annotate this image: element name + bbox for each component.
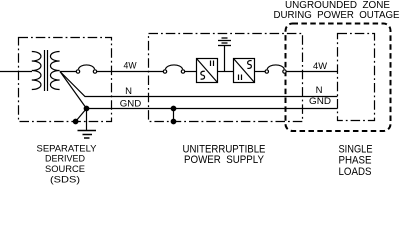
transformer T1 primary winding <box>32 52 41 90</box>
ungrounded zone boundary (thick dashed, rounded) <box>286 24 391 132</box>
battery B1 <box>224 46 226 72</box>
svg-text:GND: GND <box>309 96 331 107</box>
enclosure: SDS box <box>19 38 112 122</box>
caption: SINGLE PHASE LOADS <box>339 144 373 178</box>
ground symbol <box>78 130 97 132</box>
wire: secondary to switch S1 <box>60 71 77 73</box>
wire: switch S2 to rectifier <box>185 71 197 73</box>
caption: UNITERRUPTIBLE POWER SUPPLY <box>183 143 266 166</box>
svg-text:POWER SUPPLY: POWER SUPPLY <box>184 154 264 166</box>
svg-text:4W: 4W <box>313 61 327 72</box>
bond: GND to UPS enclosure <box>173 109 175 122</box>
wire: 4W line SDS to UPS <box>97 71 164 73</box>
svg-text:DERIVED: DERIVED <box>45 153 85 164</box>
disconnect switch S1 <box>76 70 79 73</box>
svg-text:PHASE: PHASE <box>339 155 372 167</box>
wire: neutral N <box>60 72 338 97</box>
wire: ground tap diagonal <box>60 72 87 109</box>
transformer T1 core <box>44 50 46 91</box>
inverter U2 <box>234 59 255 83</box>
enclosure: single-phase-loads box <box>338 34 375 121</box>
wire: inverter to switch S3 <box>255 71 266 73</box>
svg-text:SOURCE: SOURCE <box>45 163 85 174</box>
caption: SEPARATELY DERIVED SOURCE (SDS) <box>37 143 98 185</box>
svg-text:SINGLE: SINGLE <box>339 144 373 156</box>
enclosure: UPS box <box>149 34 303 122</box>
grounding electrode conductor <box>86 109 88 131</box>
svg-text:N: N <box>316 85 323 96</box>
wire: DC link <box>218 71 234 73</box>
wire: incoming feed <box>0 71 32 73</box>
transformer T1 secondary winding <box>50 52 59 90</box>
svg-text:DURING POWER OUTAGE: DURING POWER OUTAGE <box>274 10 400 21</box>
svg-text:LOADS: LOADS <box>339 166 372 178</box>
rectifier U1 <box>197 59 218 83</box>
disconnect switch S3 <box>265 70 268 73</box>
bond to SDS enclosure <box>76 109 87 122</box>
svg-text:(SDS): (SDS) <box>50 174 80 185</box>
wire: GND line <box>87 108 338 110</box>
svg-text:GND: GND <box>120 98 142 109</box>
junction: system bonding jumper <box>84 106 89 111</box>
disconnect switch S2 <box>163 70 166 73</box>
svg-text:N: N <box>125 86 132 97</box>
wire: 4W line to loads <box>286 71 337 73</box>
svg-text:4W: 4W <box>124 61 137 72</box>
